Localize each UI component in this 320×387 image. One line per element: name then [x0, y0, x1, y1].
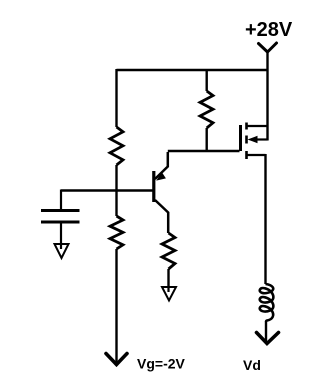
wire left vertical bottom segment	[115, 249, 117, 363]
wire drain rail (supply down to MOSFET)	[266, 51, 268, 141]
svg-text:+28V: +28V	[245, 19, 293, 41]
svg-text:Vd: Vd	[243, 357, 261, 373]
ground (below capacitor, open arrow)	[55, 244, 69, 258]
wire mid resistor bottom stub	[205, 128, 207, 151]
node +28V supply	[245, 19, 293, 52]
inductor L1	[260, 284, 274, 322]
wire source down to inductor	[264, 154, 266, 284]
wire left vertical top segment	[115, 69, 117, 127]
node Vg arrow	[106, 354, 127, 365]
resistor R3 (emitter)	[162, 233, 175, 269]
capacitor C1	[41, 190, 80, 245]
resistor R1 (upper left)	[110, 127, 123, 165]
resistor R4 (gate pull-up)	[200, 91, 213, 128]
resistor R2 (lower left)	[110, 216, 123, 249]
wire mid resistor top stub	[205, 70, 207, 91]
wire collector to gate rail	[168, 150, 240, 152]
wire base rail (cap corner to BJT base)	[61, 189, 153, 191]
transistor M1 (MOSFET)	[241, 123, 268, 160]
node Vd arrow	[257, 333, 279, 344]
wire inductor to Vd arrow	[265, 322, 267, 343]
svg-text:Vg=-2V: Vg=-2V	[137, 356, 186, 372]
transistor Q1	[154, 152, 168, 233]
ground (below emitter resistor, open arrow)	[162, 287, 176, 301]
wire left vertical middle segment	[115, 165, 117, 216]
wire top rail	[117, 69, 269, 71]
wire emitter resistor to ground arrow	[167, 269, 169, 287]
